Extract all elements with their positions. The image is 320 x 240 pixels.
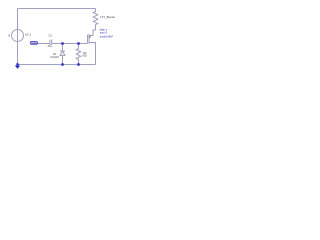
svg-text:LT1_Buster: LT1_Buster	[100, 15, 115, 19]
svg-text:47µ: 47µ	[48, 44, 53, 48]
svg-text:I1: I1	[8, 33, 11, 37]
svg-text:600: 600	[82, 54, 87, 58]
svg-text:AC 1: AC 1	[25, 32, 32, 36]
svg-text:.model NM: .model NM	[99, 34, 113, 38]
svg-text:swing: swing	[31, 43, 37, 45]
svg-text:C2: C2	[49, 34, 53, 38]
svg-text:1N4148: 1N4148	[50, 56, 59, 59]
